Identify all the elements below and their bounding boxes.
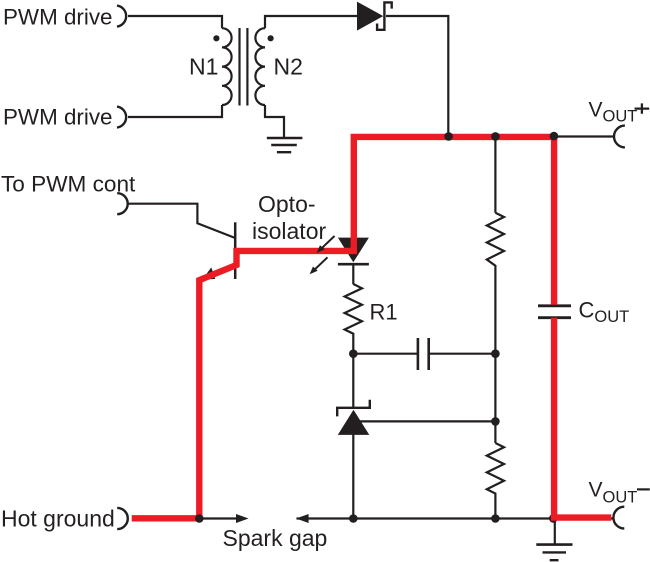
- svg-text:PWM drive: PWM drive: [3, 105, 112, 130]
- svg-text:VOUT: VOUT: [589, 99, 638, 126]
- svg-text:PWM drive: PWM drive: [3, 5, 112, 30]
- svg-text:Opto-: Opto-: [258, 191, 316, 217]
- svg-text:N2: N2: [274, 54, 303, 80]
- svg-text:Hot ground: Hot ground: [1, 506, 115, 532]
- svg-text:R1: R1: [370, 300, 398, 325]
- svg-text:VOUT: VOUT: [589, 479, 638, 507]
- svg-text:COUT: COUT: [579, 298, 630, 327]
- svg-text:Spark gap: Spark gap: [223, 525, 328, 551]
- svg-text:isolator: isolator: [252, 218, 326, 244]
- svg-text:To PWM cont: To PWM cont: [1, 172, 136, 197]
- svg-text:N1: N1: [189, 54, 218, 80]
